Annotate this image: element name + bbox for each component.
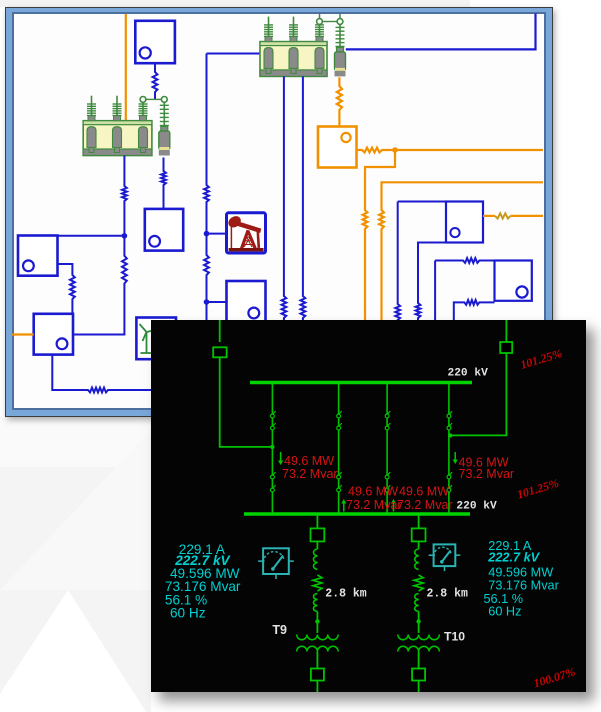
breaker CB1 <box>213 347 226 357</box>
wire B4 to wind box with reactor <box>52 355 152 393</box>
wire riser to frame <box>339 14 341 19</box>
wire riser to frame <box>319 14 321 19</box>
svg-text:220 kV: 220 kV <box>448 368 489 380</box>
disconnect switch <box>337 475 341 479</box>
transformer body <box>260 42 327 77</box>
transformer body <box>83 121 152 156</box>
wire <box>418 612 420 634</box>
wire <box>316 681 318 693</box>
disconnect switch <box>271 414 275 418</box>
wire S1 bottom leg with reactor <box>416 243 446 323</box>
junction circle <box>161 97 167 103</box>
svg-text:101.25%: 101.25% <box>519 346 564 372</box>
bay dropper wire <box>271 384 273 513</box>
flow arrow up <box>393 503 395 512</box>
wire orange branch 2 <box>379 182 543 322</box>
bay dropper wire <box>338 384 340 513</box>
wire orange branch down-left <box>363 150 395 322</box>
junction circle <box>140 97 146 103</box>
wire <box>322 21 337 23</box>
wire <box>450 353 506 435</box>
wire <box>418 652 420 669</box>
source box B8 orange <box>318 127 357 168</box>
flow arrow down <box>280 452 282 461</box>
node junction <box>204 299 210 305</box>
wire TR2 secondary feeder 1 <box>282 76 287 322</box>
wire with reactor from B1 down <box>153 63 158 100</box>
svg-text:220 kV: 220 kV <box>456 501 497 513</box>
breaker CB2 <box>500 342 512 353</box>
insulator stack <box>142 102 144 104</box>
svg-text:73.2 Mvar: 73.2 Mvar <box>282 467 338 481</box>
wire branch to pump box <box>207 233 227 235</box>
svg-text:2.8 km: 2.8 km <box>325 587 367 600</box>
svg-text:101.25%: 101.25% <box>515 476 560 502</box>
background watermark facets <box>0 0 470 7</box>
disconnect switch <box>385 414 389 418</box>
svg-text:T10: T10 <box>444 630 465 644</box>
insulator stack <box>268 17 270 25</box>
disconnect switch <box>271 426 275 430</box>
wire orange B8 output with reactor <box>357 148 544 153</box>
svg-text:49.6 MW: 49.6 MW <box>348 485 398 499</box>
insulator stack <box>319 23 321 26</box>
line impedance zigzag <box>313 575 322 591</box>
load box B7 <box>227 281 266 322</box>
wind turbine icon <box>146 332 148 353</box>
line reactor coil <box>415 549 419 569</box>
junction circle <box>337 19 343 25</box>
svg-text:60 Hz: 60 Hz <box>170 605 206 620</box>
load block S2 <box>435 258 532 263</box>
wire TR1 arrester to box B2 with reactor <box>161 158 166 209</box>
wire right incomer <box>505 320 507 342</box>
disconnect switch <box>271 475 275 479</box>
bay dropper wire <box>448 384 450 513</box>
wire <box>316 652 318 669</box>
wire <box>418 541 420 549</box>
surge arrester <box>337 47 344 52</box>
disconnect switch <box>447 475 451 479</box>
black SCADA panel <box>151 320 586 692</box>
meter icon <box>263 548 289 574</box>
transformer T9 winding secondary <box>297 646 339 651</box>
wire <box>316 612 318 634</box>
white schematic panel frame <box>5 7 553 417</box>
svg-text:2.8 km: 2.8 km <box>427 587 469 600</box>
bay dropper wire <box>386 384 388 513</box>
flow arrow down <box>454 452 456 460</box>
transformer bushing <box>139 127 148 148</box>
transformer bushing <box>315 48 324 69</box>
junction circle <box>317 19 323 25</box>
wire TR1 secondary vertical <box>122 156 127 236</box>
bus 220kV lower <box>244 512 470 516</box>
line reactor coil <box>415 594 419 612</box>
node junction <box>392 147 398 153</box>
svg-text:73.2 Mvar: 73.2 Mvar <box>346 498 402 512</box>
wire <box>146 98 162 100</box>
transformer bushing <box>87 127 96 148</box>
load box B1 <box>135 21 175 63</box>
line reactor coil <box>314 594 318 612</box>
wire TR2 right to frame top <box>346 14 536 50</box>
wind turbine box B5 <box>136 318 176 360</box>
meter icon <box>434 544 456 566</box>
oil pump box B6 <box>227 213 266 253</box>
line impedance zigzag <box>414 575 423 591</box>
arrester insulator stack <box>336 26 345 28</box>
node junction <box>270 445 274 449</box>
transformer bushing <box>289 48 298 69</box>
oil pump jack icon <box>226 214 263 252</box>
insulator stack <box>116 96 118 104</box>
disconnect switch <box>447 426 451 430</box>
breaker <box>311 669 324 681</box>
svg-text:49.6 MW: 49.6 MW <box>399 485 449 499</box>
disconnect switch <box>337 414 341 418</box>
wire to TR2 <box>207 53 261 55</box>
svg-text:222.7 kV: 222.7 kV <box>487 551 540 565</box>
wire branch to box B7 <box>207 301 227 303</box>
node junction <box>122 233 128 239</box>
disconnect switch <box>385 488 389 492</box>
load block S1 outline <box>397 320 399 322</box>
arrester insulator stack <box>160 104 169 106</box>
bus 220kV upper <box>250 381 472 385</box>
resistor gold to frame <box>483 215 495 217</box>
disconnect switch <box>447 414 451 418</box>
wire orange feeder to transformer TR1 <box>125 14 127 122</box>
breaker <box>412 528 426 541</box>
transformer bushing <box>113 127 122 148</box>
transformer T9 winding primary <box>297 635 339 640</box>
svg-text:100.07%: 100.07% <box>532 665 577 691</box>
load box B2 <box>145 209 183 251</box>
disconnect switch <box>385 426 389 430</box>
disconnect switch <box>337 488 341 492</box>
wire orange stub to B4 <box>11 333 34 335</box>
wire junction to box B3 <box>58 235 125 237</box>
svg-text:73.2 Mvar: 73.2 Mvar <box>397 498 453 512</box>
wire <box>220 357 273 447</box>
svg-text:73.2 Mvar: 73.2 Mvar <box>459 467 515 481</box>
breaker <box>311 528 325 541</box>
transformer T10 winding secondary <box>398 646 440 651</box>
load box S2 <box>495 261 532 301</box>
transformer bushing <box>264 48 273 69</box>
wire <box>316 541 318 549</box>
feeder wire <box>316 515 318 528</box>
svg-text:73.176 Mvar: 73.176 Mvar <box>488 579 559 593</box>
wire B3 to box B4 with reactor <box>58 264 75 314</box>
line reactor coil <box>314 549 318 569</box>
svg-text:60 Hz: 60 Hz <box>488 604 521 618</box>
flow arrow up <box>343 503 345 512</box>
load box B4 <box>34 314 73 355</box>
insulator stack <box>91 96 93 104</box>
wire <box>418 681 420 693</box>
disconnect switch <box>337 426 341 430</box>
node junction <box>416 619 420 623</box>
wire S2 bottom leg with reactor <box>454 300 495 322</box>
wire main vertical bus x206 <box>204 54 209 234</box>
disconnect switch <box>447 488 451 492</box>
load box S1 <box>446 202 483 243</box>
disconnect switch <box>271 488 275 492</box>
node junction <box>204 231 210 237</box>
insulator stack <box>293 17 295 25</box>
wire orange arrester drop with reactor <box>337 77 342 126</box>
wire TR2 secondary feeder 2 <box>301 76 306 322</box>
feeder wire <box>418 515 420 528</box>
svg-text:49.596 MW: 49.596 MW <box>488 566 553 580</box>
node junction <box>448 433 452 437</box>
load box B3 <box>18 236 58 276</box>
wire left incomer <box>219 320 221 342</box>
breaker <box>412 669 425 681</box>
disconnect switch <box>385 475 389 479</box>
node junction <box>315 619 319 623</box>
svg-text:T9: T9 <box>272 623 287 637</box>
transformer T10 winding primary <box>398 635 440 640</box>
surge arrester <box>161 127 168 132</box>
